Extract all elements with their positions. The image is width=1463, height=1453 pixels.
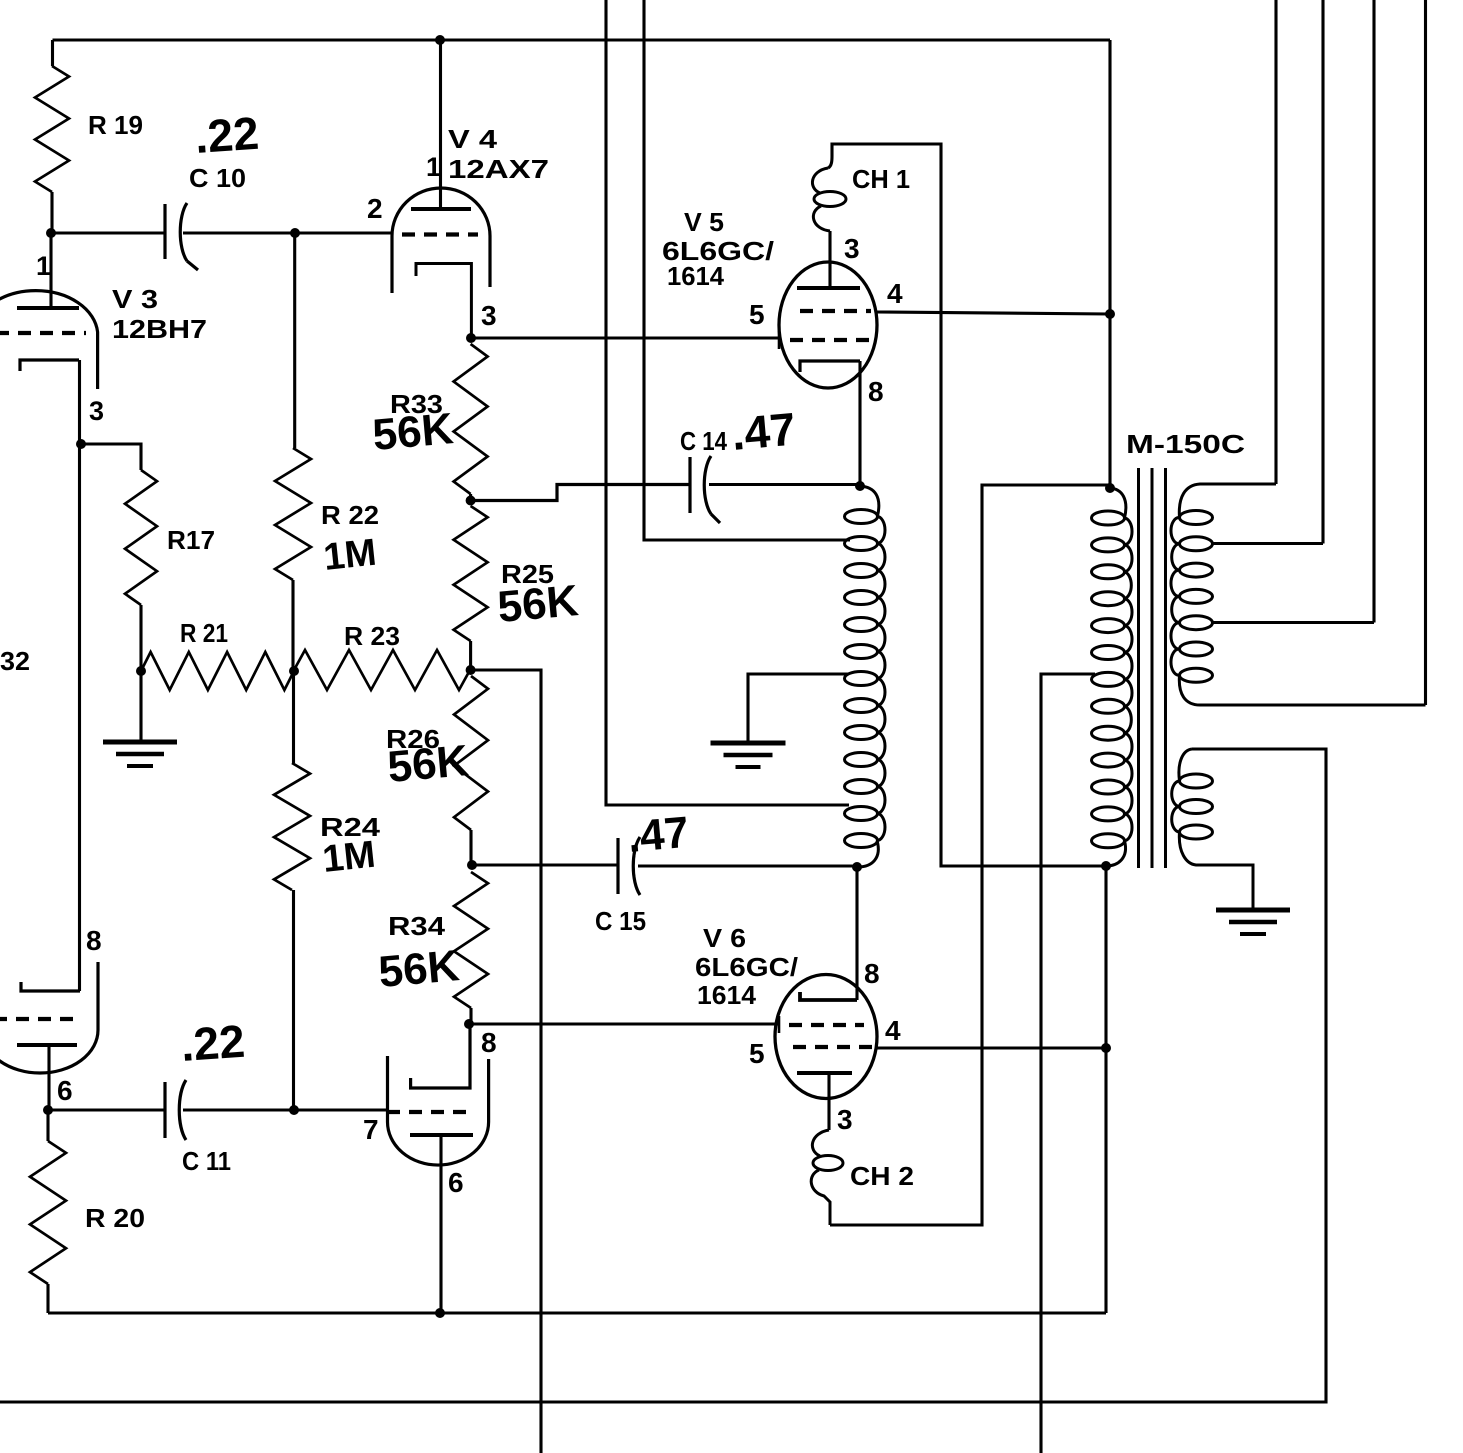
- svg-text:8: 8: [86, 925, 102, 956]
- tube V6 cathode: [797, 1071, 852, 1075]
- node bifilar bottom / C15 junction: [852, 862, 862, 872]
- tube V5 envelope: [779, 262, 877, 388]
- svg-text:3: 3: [89, 396, 104, 426]
- tube V3 upper envelope: [0, 291, 98, 389]
- label V6 pin4: [885, 1015, 901, 1046]
- capacitor C15 plate left: [616, 838, 619, 894]
- wire C10 right: [183, 231, 295, 234]
- svg-text:.22: .22: [179, 1015, 246, 1071]
- ground secondary: [1216, 910, 1290, 934]
- tube V6 plate bracket: [800, 992, 857, 1000]
- ground under R17: [103, 742, 177, 766]
- resistor R20: [30, 1141, 66, 1284]
- svg-text:3: 3: [481, 300, 497, 331]
- label R33 value 56K: [371, 404, 456, 460]
- tube V4 envelope: [392, 188, 490, 293]
- wire V6 pin4 screen right: [876, 1046, 1106, 1049]
- label R20: [85, 1203, 145, 1233]
- node R23/R25/R26 junction: [466, 665, 476, 675]
- resistor R34: [454, 872, 488, 1008]
- node V4 plate supply junction: [435, 35, 445, 45]
- label R34 value 56K: [377, 941, 462, 997]
- label V4 type 12AX7: [448, 154, 549, 184]
- capacitor C11 plate left: [163, 1082, 166, 1138]
- svg-text:3: 3: [837, 1104, 853, 1135]
- tube V3 cathode: [20, 360, 79, 371]
- label R24: [320, 812, 381, 842]
- label R24 value 1M: [321, 834, 378, 881]
- choke CH2 squiggle lower: [811, 1170, 830, 1225]
- wire V4 lower plate to V6 grid: [469, 1022, 779, 1025]
- tube V6 grid entry tick: [778, 1016, 781, 1033]
- label R17: [167, 525, 215, 555]
- svg-text:R 22: R 22: [321, 500, 379, 530]
- tube V4 grid (dashed): [402, 232, 478, 236]
- svg-text:R34: R34: [388, 911, 446, 941]
- label V4 pin7: [363, 1114, 379, 1145]
- ground under bifilar tap: [711, 743, 786, 767]
- wire V3 pin3 cathode down to lower plate: [78, 360, 81, 991]
- label C15: [595, 906, 646, 936]
- svg-text:R 21: R 21: [180, 618, 228, 648]
- svg-text:V 6: V 6: [703, 923, 746, 953]
- wire C10 left: [51, 231, 165, 234]
- node R34/V4 plate junction: [464, 1019, 474, 1029]
- node bifilar bottom rail junction: [1101, 861, 1111, 871]
- tube V6 envelope: [775, 975, 877, 1099]
- transformer secondary lower bottom curve: [1179, 832, 1253, 908]
- svg-text:V 5: V 5: [684, 207, 724, 237]
- wire V3 pin6 cathode lead: [47, 1045, 50, 1110]
- svg-text:6: 6: [57, 1075, 73, 1106]
- label CH2: [850, 1161, 914, 1191]
- svg-text:12AX7: 12AX7: [448, 154, 549, 184]
- wire C11 left: [48, 1108, 165, 1111]
- capacitor C14 plate right curved: [704, 456, 720, 523]
- choke CH1 loop: [814, 192, 846, 207]
- svg-text:CH 1: CH 1: [852, 164, 910, 194]
- transformer core line 3: [1164, 468, 1167, 868]
- wire junction to C14 (jog): [471, 485, 690, 501]
- wire CH1 bracket to bifilar bottom: [828, 144, 1106, 866]
- tube V5 screen grid (dashed): [800, 309, 871, 313]
- label V6: [703, 923, 746, 953]
- svg-text:32: 32: [0, 646, 30, 676]
- wire R19 bottom to C10 node: [50, 192, 53, 233]
- tube V4 plate: [411, 207, 471, 211]
- node R17/R21 junction: [136, 666, 146, 676]
- transformer secondary top curve: [1179, 484, 1276, 518]
- label V3 type 12BH7: [112, 314, 207, 344]
- transformer bifilar winding: [845, 510, 886, 848]
- svg-text:1614: 1614: [667, 261, 725, 291]
- wire bifilar centre tap to ground: [748, 674, 849, 741]
- node V3 cathode / R17 junction: [76, 439, 86, 449]
- tube V5 plate: [797, 286, 860, 290]
- tube V6 screen grid (dashed): [789, 1023, 864, 1027]
- wire B+ top rail: [53, 38, 1111, 41]
- svg-text:5: 5: [749, 1038, 765, 1069]
- label V3: [112, 284, 158, 314]
- svg-text:6L6GC/: 6L6GC/: [695, 952, 798, 982]
- label C11 value .22: [179, 1015, 246, 1071]
- choke CH1 squiggle upper: [812, 168, 828, 193]
- label R34: [388, 911, 446, 941]
- label V3 pin1: [36, 251, 51, 281]
- svg-text:8: 8: [864, 958, 880, 989]
- tube V4 lower grid (dashed): [387, 1110, 473, 1114]
- capacitor C10 plate right curved: [180, 203, 198, 270]
- wire grid rail x606: [606, 0, 849, 805]
- wire V4 pin1 lead: [439, 40, 442, 209]
- wire V6 pin3 cathode lead: [827, 1073, 830, 1130]
- resistor R25: [454, 506, 488, 641]
- svg-text:C 15: C 15: [595, 906, 646, 936]
- label V5 pin8: [868, 376, 884, 407]
- transformer bifilar top curve: [860, 486, 879, 516]
- svg-text:CH 2: CH 2: [850, 1161, 914, 1191]
- tube V5 control grid (dashed): [790, 338, 871, 342]
- wire V3 pin1 lead: [49, 233, 52, 308]
- capacitor C11 plate right curved: [179, 1080, 186, 1140]
- wire C10 node to V4 grid pin2: [295, 231, 392, 234]
- wire C11 node to V4 pin7: [294, 1108, 387, 1111]
- wire R25 bottom: [469, 641, 472, 670]
- transformer secondary upper winding: [1171, 511, 1213, 683]
- wire R19 top: [51, 40, 54, 66]
- svg-text:1614: 1614: [697, 980, 757, 1010]
- wire V6 pin8 lead: [855, 867, 858, 1000]
- label R26: [386, 724, 440, 754]
- node R26/R34/C15 junction: [467, 860, 477, 870]
- label R26 value 56K: [386, 736, 471, 792]
- label V5 type 6L6GC/: [662, 236, 774, 266]
- label R22: [321, 500, 379, 530]
- resistor R26: [454, 676, 488, 830]
- wire secondary lead 4: [1424, 0, 1427, 705]
- transformer primary top curve: [1110, 488, 1126, 518]
- wire V4 pin6 cathode lead: [439, 1135, 442, 1313]
- svg-text:R 20: R 20: [85, 1203, 145, 1233]
- capacitor C10 plate left: [163, 204, 166, 259]
- label V4 pin6: [448, 1167, 464, 1198]
- wire R17 bottom: [139, 605, 142, 671]
- tube V3 plate: [17, 306, 79, 310]
- transformer secondary bottom curve: [1179, 675, 1425, 705]
- wire C11 right: [183, 1108, 294, 1111]
- transformer secondary lower top curve: [1179, 749, 1192, 781]
- wire R22 top: [293, 233, 296, 448]
- tube V4 lower envelope: [388, 1056, 489, 1165]
- label V5 type 1614: [667, 261, 725, 291]
- wire secondary lead 1: [1274, 0, 1277, 484]
- transformer secondary lower winding: [1172, 774, 1213, 839]
- label V6 pin5: [749, 1038, 765, 1069]
- choke CH2 loop: [813, 1156, 843, 1171]
- node C10 input junction: [46, 228, 56, 238]
- capacitor C14 plate left: [688, 457, 691, 513]
- label V5 pin4: [887, 278, 903, 309]
- wire R24 top: [292, 671, 295, 763]
- wire R24 bottom: [292, 890, 295, 1110]
- label R22 value 1M: [322, 532, 379, 579]
- resistor R24: [274, 763, 310, 890]
- svg-text:6: 6: [448, 1167, 464, 1198]
- svg-text:R17: R17: [167, 525, 215, 555]
- wire ground stem R17: [139, 671, 142, 740]
- wire R26 bottom: [469, 830, 472, 865]
- wire CH2 bottom to screen rail: [830, 485, 1110, 1225]
- node R33/R25/C14 junction: [466, 496, 476, 506]
- wire secondary lead 2: [1321, 0, 1324, 544]
- choke CH2 squiggle upper: [812, 1130, 829, 1156]
- wire B+ rail right drop: [1108, 40, 1111, 488]
- label V4 pin8: [481, 1027, 497, 1058]
- label R25 value 56K: [496, 576, 581, 632]
- wire V5 pin8 cathode lead: [858, 361, 861, 486]
- label V5 pin5: [749, 299, 765, 330]
- svg-text:C 14: C 14: [680, 426, 727, 456]
- svg-text:12BH7: 12BH7: [112, 314, 207, 344]
- svg-text:R 23: R 23: [344, 621, 400, 651]
- wire secondary lead 3: [1372, 0, 1375, 623]
- svg-text:1: 1: [36, 251, 51, 281]
- resistor R21: [141, 652, 294, 690]
- label V4 pin1: [426, 152, 441, 182]
- svg-text:C 11: C 11: [182, 1146, 231, 1176]
- label V4 pin2: [367, 193, 383, 224]
- label V4 pin3: [481, 300, 497, 331]
- svg-text:56K: 56K: [377, 941, 462, 997]
- choke CH1 squiggle lower: [813, 206, 830, 231]
- tube V3 lower grid (dashed): [0, 1017, 80, 1021]
- label V6 type 6L6GC/: [695, 952, 798, 982]
- label CH1: [852, 164, 910, 194]
- transformer secondary tap 2: [1212, 542, 1323, 545]
- wire primary tap rail x1041: [1041, 674, 1095, 1453]
- node R22 top junction: [290, 228, 300, 238]
- tube V4 lower plate bracket: [411, 1024, 470, 1088]
- transformer bifilar bottom curve: [858, 841, 878, 868]
- svg-text:4: 4: [887, 278, 903, 309]
- label V5 pin3: [844, 233, 860, 264]
- label R21: [180, 618, 228, 648]
- svg-text:4: 4: [885, 1015, 901, 1046]
- label C14: [680, 426, 727, 456]
- label V3 pin3: [89, 396, 104, 426]
- label C10 value .22: [193, 107, 260, 163]
- svg-text:.47: .47: [626, 808, 691, 862]
- node bifilar top junction: [855, 481, 865, 491]
- wire bottom feedback rail: [0, 749, 1326, 1402]
- tube V3 lower cathode: [17, 1043, 77, 1047]
- label V4: [448, 124, 498, 154]
- tube V4 lower cathode: [410, 1133, 473, 1137]
- svg-text:56K: 56K: [496, 576, 581, 632]
- node C11/R24 junction: [289, 1105, 299, 1115]
- svg-text:56K: 56K: [371, 404, 456, 460]
- tube V3 grid (dashed): [0, 331, 86, 335]
- label C11: [182, 1146, 231, 1176]
- transformer secondary tap 3: [1212, 621, 1374, 624]
- label V5: [684, 207, 724, 237]
- tube V5 grid entry tick: [778, 331, 781, 349]
- resistor R17: [125, 470, 157, 605]
- label V6 pin8: [864, 958, 880, 989]
- svg-text:56K: 56K: [386, 736, 471, 792]
- svg-text:8: 8: [868, 376, 884, 407]
- svg-text:3: 3: [844, 233, 860, 264]
- wire C15 to bifilar bottom: [638, 864, 857, 867]
- label V3 pin6: [57, 1075, 73, 1106]
- wire V5 pin4 screen to rail: [877, 312, 1110, 314]
- transformer primary bottom curve: [1106, 841, 1126, 866]
- tube V3 lower plate bracket: [21, 982, 80, 991]
- resistor R22: [275, 448, 311, 580]
- wire R20 top: [46, 1110, 49, 1141]
- transformer core line 2: [1151, 468, 1154, 868]
- svg-text:R 19: R 19: [88, 110, 143, 140]
- node C11 input junction: [43, 1105, 53, 1115]
- wire C14 to bifilar top: [709, 483, 860, 486]
- wire screen rail x644: [644, 0, 850, 540]
- node V4 pin6 bottom junction: [435, 1308, 445, 1318]
- transformer M-150C primary winding: [1092, 511, 1133, 848]
- wire R20 bottom: [46, 1284, 49, 1313]
- svg-text:1M: 1M: [321, 834, 378, 881]
- capacitor C15 plate right curved: [633, 837, 640, 895]
- label V6 pin3: [837, 1104, 853, 1135]
- label M-150C: [1126, 429, 1245, 459]
- resistor R19: [35, 66, 69, 192]
- node R21/R22/R23/R24 junction: [289, 666, 299, 676]
- label R23: [344, 621, 400, 651]
- wire R34 bottom: [469, 1008, 472, 1024]
- svg-text:V 3: V 3: [112, 284, 158, 314]
- node V4 cathode junction: [466, 333, 476, 343]
- svg-text:V 4: V 4: [448, 124, 498, 154]
- svg-text:1: 1: [426, 152, 441, 182]
- wire cathode return bottom rail: [48, 1311, 1106, 1314]
- wire V4 cathode to V5 grid: [471, 336, 779, 339]
- label V6 type 1614: [697, 980, 757, 1010]
- label C14 value .47: [729, 403, 797, 460]
- resistor R33: [454, 344, 488, 494]
- wire V5 pin3 plate lead: [828, 231, 831, 288]
- svg-text:1M: 1M: [322, 532, 379, 579]
- tube V3 lower envelope: [0, 962, 98, 1073]
- wire bias rail x541: [471, 670, 541, 1453]
- svg-text:7: 7: [363, 1114, 379, 1145]
- label 32 (clipped R32): [0, 646, 30, 676]
- tube V6 control grid (dashed): [793, 1045, 873, 1049]
- tube V4 cathode: [416, 264, 471, 339]
- wire R33 bottom: [469, 494, 472, 501]
- transformer core line 1: [1137, 468, 1140, 868]
- label R25: [501, 559, 554, 589]
- label V3 pin8: [86, 925, 102, 956]
- resistor R23: [294, 650, 470, 690]
- svg-text:.47: .47: [729, 403, 797, 460]
- svg-text:2: 2: [367, 193, 383, 224]
- node transformer primary top junction: [1105, 483, 1115, 493]
- label C15 value .47: [626, 808, 691, 862]
- node V6 screen junction: [1101, 1043, 1111, 1053]
- svg-text:.22: .22: [193, 107, 260, 163]
- wire screen bus vertical: [1104, 866, 1107, 1313]
- svg-text:5: 5: [749, 299, 765, 330]
- label R33: [390, 389, 443, 419]
- wire junction to R17: [81, 444, 141, 470]
- wire R22 bottom: [291, 580, 294, 671]
- label R19: [88, 110, 143, 140]
- node V5 screen junction: [1105, 309, 1115, 319]
- wire R26 junction to C15: [472, 863, 618, 866]
- tube V5 cathode: [800, 361, 860, 372]
- svg-text:8: 8: [481, 1027, 497, 1058]
- svg-text:C 10: C 10: [189, 163, 246, 193]
- label C10: [189, 163, 246, 193]
- svg-text:M-150C: M-150C: [1126, 429, 1245, 459]
